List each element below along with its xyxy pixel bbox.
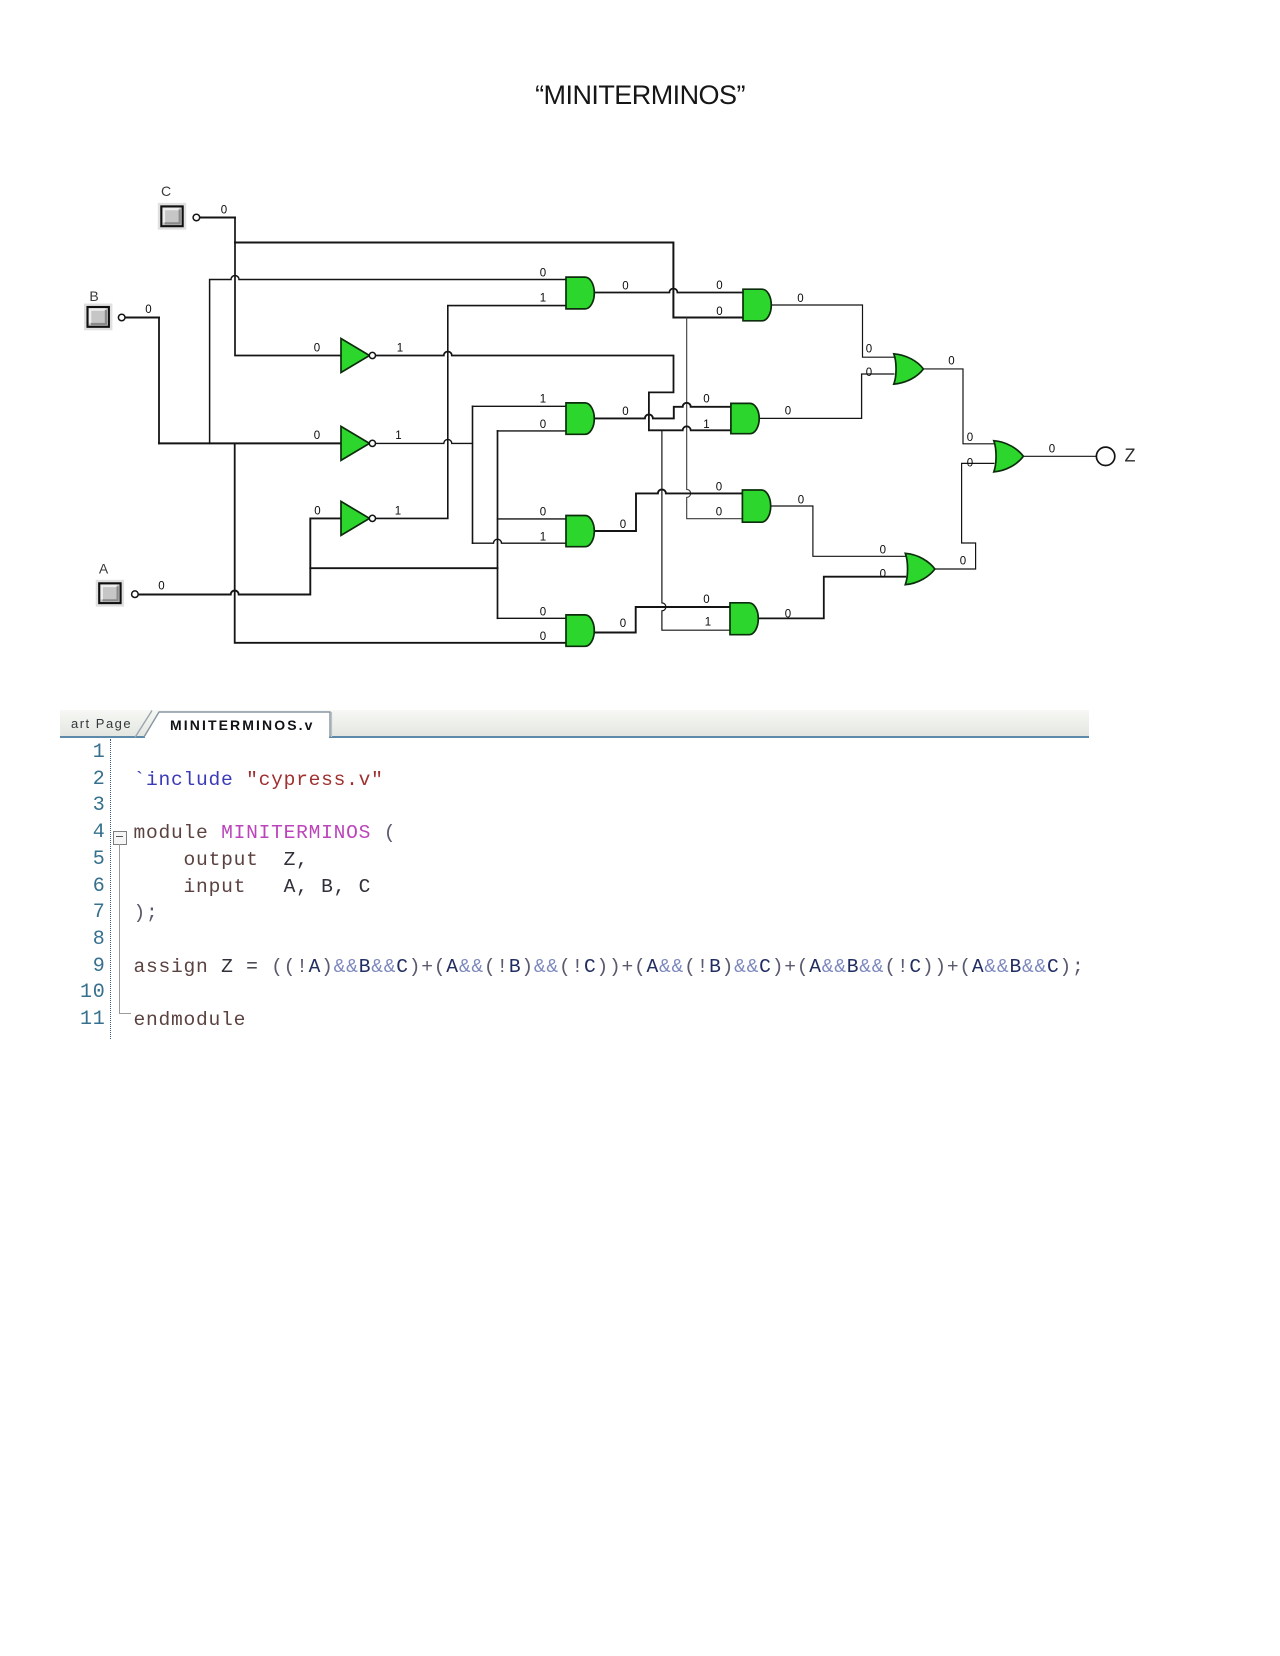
svg-text:0: 0 [540, 268, 546, 280]
svg-text:0: 0 [948, 356, 954, 368]
svg-text:0: 0 [866, 344, 872, 356]
or gate O2 [905, 553, 935, 584]
wire OR1 output to OR3 input a [923, 369, 993, 444]
svg-text:0: 0 [716, 306, 722, 318]
inverter NOT3 (A) [341, 501, 376, 535]
wire NOT2 vertical distribution [472, 406, 474, 543]
svg-text:0: 0 [1049, 444, 1055, 456]
and gate R2 [731, 403, 759, 433]
and gate L1 [566, 277, 594, 309]
wire B branch down to AND L4 input b [235, 443, 566, 642]
svg-text:0: 0 [785, 406, 791, 418]
wire NOT1 branch to AND R4 input b [662, 430, 730, 630]
svg-text:A: A [99, 561, 109, 577]
fold guide line [119, 844, 120, 1014]
svg-text:0: 0 [716, 280, 722, 292]
input switch B [85, 305, 111, 329]
svg-text:0: 0 [620, 519, 626, 531]
terminal node of switch A [132, 591, 139, 598]
svg-text:0: 0 [797, 293, 803, 305]
svg-text:0: 0 [540, 631, 546, 643]
svg-text:0: 0 [158, 581, 164, 593]
wire B switch stub [125, 317, 159, 319]
wire A vertical distribution [497, 431, 499, 618]
svg-text:0: 0 [314, 506, 320, 518]
gutter dotted separator [110, 739, 111, 1039]
wire NOT2 output to vertical [376, 439, 473, 443]
wire B branch up to AND L1 input a [210, 276, 566, 444]
svg-text:1: 1 [397, 343, 403, 355]
svg-text:B: B [89, 288, 98, 304]
svg-text:C: C [161, 183, 171, 199]
svg-text:0: 0 [703, 394, 709, 406]
svg-text:0: 0 [620, 618, 626, 630]
wire AND R4 output to OR2 input b [758, 577, 905, 619]
svg-text:0: 0 [716, 507, 722, 519]
wire OR3 output to Z terminal [1023, 455, 1096, 457]
wire A branch horizontal [310, 567, 497, 569]
wire C branch to AND R3 input b [687, 318, 743, 519]
wire AND R1 output to OR1 input a [771, 305, 894, 357]
or gate O3 final [994, 441, 1024, 472]
fold box line 4 [113, 831, 127, 845]
wire OR2 output to OR3 input b [935, 463, 994, 569]
wire A to AND L2 input b [498, 430, 567, 432]
inverter NOT1 (C) [341, 339, 376, 373]
and gate R4 [730, 603, 758, 635]
svg-text:1: 1 [705, 617, 711, 629]
wire AND R3 output to OR2 input a [770, 506, 905, 556]
input switch C [159, 204, 185, 228]
wire AND L4 output to AND R4 input a [594, 607, 730, 633]
svg-text:0: 0 [145, 304, 151, 316]
and gate L2 [566, 403, 594, 434]
svg-text:0: 0 [314, 343, 320, 355]
svg-text:0: 0 [314, 430, 320, 442]
and gate L4 [566, 615, 594, 646]
svg-text:0: 0 [221, 205, 227, 217]
wire AND L3 output to AND R3 input a [594, 489, 742, 531]
svg-text:0: 0 [785, 609, 791, 621]
svg-text:1: 1 [703, 419, 709, 431]
svg-text:0: 0 [880, 568, 886, 580]
wire A to AND L3 input a [498, 518, 567, 520]
svg-text:0: 0 [622, 281, 628, 293]
svg-text:1: 1 [540, 532, 546, 544]
svg-text:0: 0 [960, 556, 966, 568]
svg-text:1: 1 [395, 506, 401, 518]
wire AND L1 output to AND R1 input a [594, 289, 743, 293]
input switch A [97, 581, 123, 605]
svg-text:0: 0 [967, 458, 973, 470]
svg-text:0: 0 [866, 367, 872, 379]
terminal node of switch B [118, 314, 125, 321]
and gate R3 [742, 490, 770, 522]
svg-text:1: 1 [395, 430, 401, 442]
wire AND L2 output to AND R2 input a [594, 403, 731, 419]
wire A switch to NOT3 input [139, 518, 341, 594]
wire C trunk to AND R1 input b [235, 243, 743, 318]
wire B main to NOT2 input [159, 442, 341, 444]
code editor tab strip [60, 709, 1089, 738]
wire C vertical to NOT1 input [235, 218, 341, 356]
wire C switch stub [200, 217, 235, 219]
svg-text:0: 0 [798, 495, 804, 507]
wire NOT2 to AND L3 input b [473, 539, 567, 543]
wire NOT3 output to AND L1 input b [376, 306, 566, 519]
svg-text:0: 0 [540, 419, 546, 431]
svg-text:0: 0 [703, 594, 709, 606]
and gate L3 [566, 516, 594, 547]
output terminal Z [1096, 447, 1114, 465]
svg-text:1: 1 [540, 394, 546, 406]
wire B down to main row [158, 318, 160, 444]
svg-text:0: 0 [622, 406, 628, 418]
svg-text:Z: Z [1125, 446, 1136, 466]
svg-text:0: 0 [540, 507, 546, 519]
wire A to AND L4 input a [498, 617, 567, 619]
wire AND R2 output to OR1 input b [759, 374, 894, 418]
terminal node of switch C [193, 214, 200, 221]
svg-text:0: 0 [967, 432, 973, 444]
code text [134, 767, 384, 794]
svg-text:0: 0 [540, 607, 546, 619]
gutter line numbers [60, 740, 106, 1034]
svg-text:1: 1 [540, 293, 546, 305]
or gate O1 [894, 354, 924, 384]
and gate R1 [743, 289, 771, 321]
svg-text:0: 0 [716, 482, 722, 494]
active tab MINITERMINOS.v [60, 705, 1089, 741]
wire NOT2 to AND L2 input a [473, 405, 567, 407]
title [0, 82, 1280, 109]
inverter NOT2 (B) [341, 426, 376, 460]
svg-text:0: 0 [880, 545, 886, 557]
wire NOT1 output staircase to AND R2 input b [376, 352, 731, 431]
